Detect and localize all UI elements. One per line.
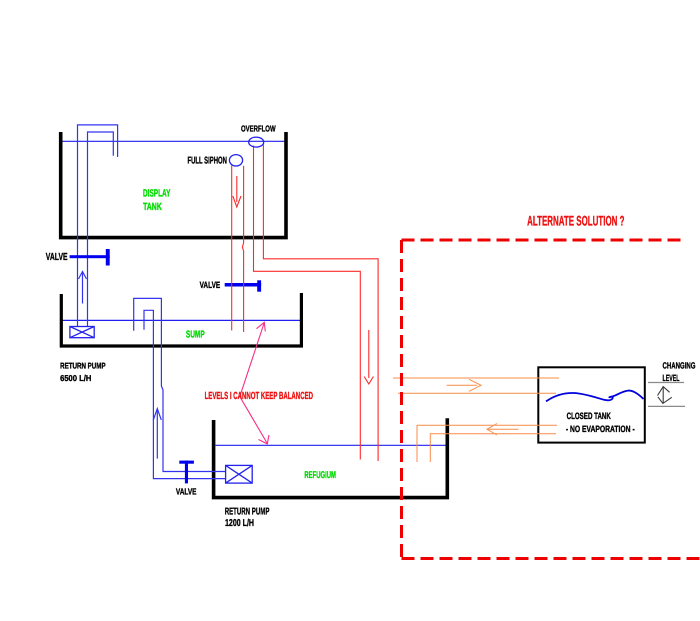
svg-text:TANK: TANK [143, 202, 162, 213]
svg-text:RETURN PUMP: RETURN PUMP [225, 506, 270, 517]
svg-text:SUMP: SUMP [186, 330, 205, 341]
svg-text:VALVE: VALVE [176, 487, 197, 497]
svg-text:FULL SIPHON: FULL SIPHON [188, 155, 227, 166]
svg-text:VALVE: VALVE [46, 252, 68, 263]
svg-text:CHANGING: CHANGING [663, 360, 696, 370]
svg-text:REFUGIUM: REFUGIUM [304, 470, 336, 481]
svg-text:LEVELS I CANNOT KEEP BALANCED: LEVELS I CANNOT KEEP BALANCED [205, 391, 313, 402]
svg-text:- NO EVAPORATION -: - NO EVAPORATION - [566, 424, 635, 434]
svg-text:LEVEL: LEVEL [663, 373, 680, 383]
svg-text:CLOSED TANK: CLOSED TANK [567, 411, 611, 421]
svg-text:VALVE: VALVE [200, 280, 221, 290]
svg-text:1200 L/H: 1200 L/H [225, 518, 254, 529]
svg-text:ALTERNATE SOLUTION ?: ALTERNATE SOLUTION ? [527, 212, 624, 228]
svg-text:6500 L/H: 6500 L/H [60, 373, 91, 383]
svg-text:OVERFLOW: OVERFLOW [241, 124, 276, 134]
svg-text:DISPLAY: DISPLAY [143, 189, 170, 200]
svg-text:RETURN PUMP: RETURN PUMP [60, 361, 106, 371]
